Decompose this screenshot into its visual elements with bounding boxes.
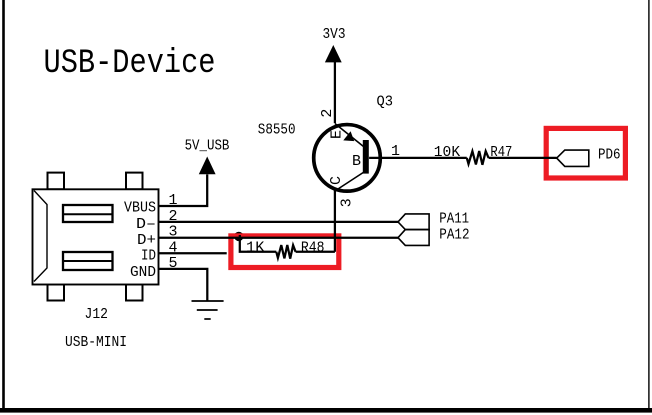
port PA12	[398, 230, 429, 246]
svg-text:J12: J12	[85, 306, 109, 323]
svg-text:D–: D–	[136, 216, 156, 233]
wire D- to PA11	[159, 221, 399, 223]
svg-text:E: E	[329, 130, 346, 139]
junction node on D+	[234, 232, 243, 241]
wire VBUS pin 1 to 5V_USB	[159, 174, 208, 206]
wire D+ to PA12	[159, 237, 399, 239]
svg-text:GND: GND	[130, 264, 156, 281]
svg-text:USB-MINI: USB-MINI	[65, 334, 127, 351]
svg-text:VBUS: VBUS	[124, 200, 156, 217]
svg-text:PA12: PA12	[439, 226, 469, 243]
svg-text:R48: R48	[301, 240, 325, 257]
wire Q3 collector down to R48	[334, 191, 336, 252]
svg-text:3: 3	[339, 198, 356, 207]
svg-text:S8550: S8550	[258, 122, 296, 139]
resistor R47	[467, 151, 489, 165]
svg-text:USB-Device: USB-Device	[44, 45, 216, 83]
wire junction to R48	[240, 235, 276, 252]
svg-text:ID: ID	[141, 248, 156, 265]
transistor Q3	[314, 124, 381, 192]
wire ID pin 4 stub	[159, 252, 227, 254]
red highlight box around R48	[231, 236, 339, 268]
power 3V3	[323, 26, 346, 62]
ground	[192, 301, 224, 319]
wire R47 to PD6	[489, 157, 557, 159]
wire R48 to collector	[296, 251, 335, 253]
power 5V_USB	[185, 138, 230, 175]
red highlight box around PD6	[546, 128, 625, 178]
svg-text:2: 2	[319, 109, 336, 118]
svg-text:B: B	[352, 153, 361, 170]
svg-text:D+: D+	[137, 232, 156, 249]
wire GND pin 5 to ground	[159, 269, 208, 301]
connector J12 body	[33, 173, 159, 301]
wire 3V3 to Q3 emitter	[334, 62, 336, 123]
svg-text:3V3: 3V3	[323, 26, 346, 43]
svg-text:5V_USB: 5V_USB	[185, 138, 230, 155]
resistor R48	[276, 245, 295, 259]
svg-text:C: C	[328, 176, 345, 185]
port PA11	[398, 214, 429, 230]
svg-text:1K: 1K	[246, 239, 265, 256]
port PD6	[557, 150, 589, 166]
svg-text:PA11: PA11	[439, 211, 469, 228]
svg-text:Q3: Q3	[377, 94, 394, 111]
svg-text:PD6: PD6	[598, 146, 621, 163]
wire Q3 base to R47	[369, 157, 467, 159]
svg-text:10K: 10K	[434, 144, 460, 161]
